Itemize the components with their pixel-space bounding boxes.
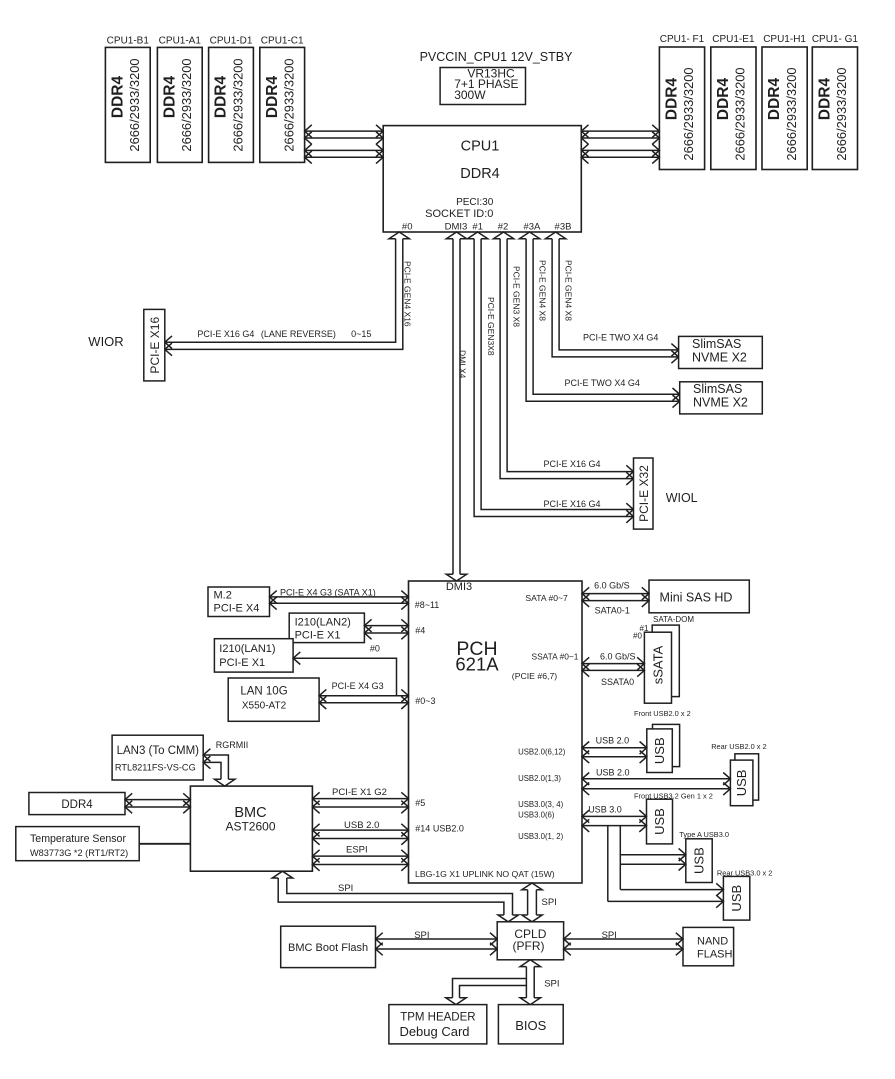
svg-text:USB: USB (692, 847, 707, 874)
svg-text:PCI-E X1: PCI-E X1 (295, 630, 341, 642)
svg-text:CPU1-E1: CPU1-E1 (712, 34, 755, 45)
svg-text:BIOS: BIOS (515, 1018, 546, 1033)
svg-text:DDR4: DDR4 (663, 78, 680, 121)
svg-text:USB: USB (734, 770, 749, 797)
svg-text:DMI3: DMI3 (446, 581, 472, 593)
svg-text:PVCCIN_CPU1 12V_STBY: PVCCIN_CPU1 12V_STBY (420, 50, 574, 64)
svg-text:USB 3.0: USB 3.0 (588, 805, 622, 815)
svg-text:PECI:30: PECI:30 (456, 197, 494, 208)
svg-text:SATA-DOM: SATA-DOM (653, 615, 694, 624)
svg-text:DDR4: DDR4 (61, 799, 93, 811)
svg-text:USB3.0(1, 2): USB3.0(1, 2) (518, 832, 563, 841)
svg-text:PCI-E GEN3X8: PCI-E GEN3X8 (486, 297, 496, 356)
svg-text:ESPI: ESPI (346, 845, 368, 856)
svg-text:DDR4: DDR4 (460, 166, 499, 182)
svg-text:USB: USB (652, 808, 667, 835)
svg-text:USB2.0(1,3): USB2.0(1,3) (518, 774, 561, 783)
svg-text:PCI-E GEN4 X16: PCI-E GEN4 X16 (403, 261, 413, 327)
svg-text:#4: #4 (415, 626, 425, 636)
svg-text:M.2: M.2 (214, 590, 232, 602)
svg-text:#2: #2 (498, 222, 509, 233)
svg-text:DDR4: DDR4 (264, 76, 281, 119)
svg-text:USB2.0(6,12): USB2.0(6,12) (518, 748, 566, 757)
svg-text:USB3.0(3, 4): USB3.0(3, 4) (518, 800, 563, 809)
svg-text:Mini SAS HD: Mini SAS HD (660, 591, 733, 605)
svg-text:Debug Card: Debug Card (399, 1024, 469, 1039)
svg-text:RTL8211FS-VS-CG: RTL8211FS-VS-CG (115, 762, 196, 772)
svg-text:SPI: SPI (338, 883, 353, 894)
svg-text:SPI: SPI (602, 930, 617, 941)
svg-text:SATA0-1: SATA0-1 (595, 606, 630, 616)
svg-text:#8~11: #8~11 (415, 600, 440, 610)
svg-text:SPI: SPI (544, 979, 559, 990)
svg-text:PCI-E X4 G3: PCI-E X4 G3 (332, 681, 384, 691)
svg-text:(PFR): (PFR) (513, 939, 545, 953)
svg-text:PCI-E TWO X4 G4: PCI-E TWO X4 G4 (583, 333, 658, 343)
svg-text:(PCIE #6,7): (PCIE #6,7) (512, 671, 557, 681)
svg-text:DDR4: DDR4 (213, 76, 230, 119)
svg-text:sSATA: sSATA (651, 645, 666, 684)
svg-text:#0: #0 (402, 222, 413, 233)
svg-text:Rear USB2.0 x 2: Rear USB2.0 x 2 (711, 742, 766, 751)
svg-text:2666/2933/3200: 2666/2933/3200 (179, 58, 194, 151)
svg-text:PCI-E X16 G4: PCI-E X16 G4 (197, 329, 254, 339)
svg-text:CPU1-A1: CPU1-A1 (159, 36, 202, 47)
svg-text:DDR4: DDR4 (816, 78, 833, 121)
svg-text:CPU1-C1: CPU1-C1 (261, 36, 304, 47)
svg-text:DDR4: DDR4 (715, 78, 732, 121)
svg-text:I210(LAN2): I210(LAN2) (295, 617, 351, 629)
svg-text:SATA #0~7: SATA #0~7 (525, 593, 568, 603)
svg-text:FLASH: FLASH (697, 949, 733, 961)
svg-text:PCI-E X16 G4: PCI-E X16 G4 (544, 499, 601, 509)
svg-text:#3A: #3A (523, 222, 541, 233)
svg-text:USB 2.0: USB 2.0 (596, 736, 630, 746)
svg-text:PCI-E TWO X4 G4: PCI-E TWO X4 G4 (565, 378, 640, 388)
svg-text:RGRMII: RGRMII (216, 740, 249, 750)
svg-text:USB: USB (729, 885, 744, 912)
svg-text:2666/2933/3200: 2666/2933/3200 (733, 67, 748, 160)
svg-text:TPM HEADER: TPM HEADER (400, 1012, 475, 1024)
svg-text:CPU1-D1: CPU1-D1 (210, 36, 253, 47)
svg-text:#0~3: #0~3 (415, 696, 435, 706)
svg-text:SOCKET ID:0: SOCKET ID:0 (425, 208, 493, 220)
svg-text:LBG-1G X1 UPLINK NO QAT (15W): LBG-1G X1 UPLINK NO QAT (15W) (415, 869, 555, 879)
svg-text:AST2600: AST2600 (225, 820, 275, 834)
svg-text:PCI-E GEN3 X8: PCI-E GEN3 X8 (512, 266, 522, 327)
svg-text:X550-AT2: X550-AT2 (242, 701, 287, 712)
svg-text:PCI-E GEN4 X8: PCI-E GEN4 X8 (564, 260, 574, 321)
svg-text:USB 2.0: USB 2.0 (344, 820, 379, 831)
svg-text:CPU1- G1: CPU1- G1 (812, 34, 859, 45)
svg-text:CPU1: CPU1 (461, 139, 500, 155)
svg-text:2666/2933/3200: 2666/2933/3200 (282, 58, 297, 151)
svg-text:LAN 10G: LAN 10G (240, 686, 287, 698)
svg-text:Front USB2.0 x 2: Front USB2.0 x 2 (634, 709, 691, 718)
svg-text:PCI-E X1: PCI-E X1 (219, 657, 265, 669)
svg-text:#3B: #3B (555, 222, 572, 233)
svg-text:PCI-E X16: PCI-E X16 (148, 317, 162, 374)
svg-text:W83773G *2 (RT1/RT2): W83773G *2 (RT1/RT2) (30, 848, 128, 858)
svg-text:WIOL: WIOL (666, 491, 698, 505)
svg-text:2666/2933/3200: 2666/2933/3200 (230, 58, 245, 151)
svg-text:LAN3 (To CMM): LAN3 (To CMM) (117, 745, 200, 757)
svg-text:SlimSAS: SlimSAS (693, 382, 742, 396)
svg-text:NVME X2: NVME X2 (692, 350, 747, 364)
svg-text:USB: USB (652, 737, 667, 764)
svg-text:DMI3: DMI3 (445, 222, 468, 233)
svg-text:SSATA #0~1: SSATA #0~1 (532, 652, 579, 662)
svg-text:2666/2933/3200: 2666/2933/3200 (127, 58, 142, 151)
svg-text:DMI X4: DMI X4 (458, 350, 468, 379)
svg-text:#1: #1 (472, 222, 483, 233)
svg-text:USB3.0(6): USB3.0(6) (518, 811, 555, 820)
svg-text:SSATA0: SSATA0 (601, 677, 634, 687)
svg-text:SPI: SPI (414, 930, 429, 941)
svg-text:USB 2.0: USB 2.0 (596, 768, 630, 778)
svg-text:6.0 Gb/S: 6.0 Gb/S (600, 652, 636, 662)
svg-text:I210(LAN1): I210(LAN1) (219, 643, 275, 655)
svg-text:PCI-E GEN4 X8: PCI-E GEN4 X8 (538, 260, 548, 321)
svg-text:DDR4: DDR4 (161, 76, 178, 119)
svg-text:0~15: 0~15 (351, 329, 371, 339)
svg-text:SlimSAS: SlimSAS (692, 337, 741, 351)
svg-text:PCI-E X4: PCI-E X4 (214, 603, 260, 615)
svg-text:BMC Boot Flash: BMC Boot Flash (288, 942, 368, 954)
svg-text:300W: 300W (454, 88, 486, 102)
svg-text:PCI-E X16 G4: PCI-E X16 G4 (544, 459, 601, 469)
svg-text:(LANE REVERSE): (LANE REVERSE) (261, 329, 336, 339)
svg-text:DDR4: DDR4 (766, 78, 783, 121)
svg-text:PCI-E X1 G2: PCI-E X1 G2 (332, 787, 387, 798)
svg-text:CPU1- F1: CPU1- F1 (660, 34, 705, 45)
svg-text:621A: 621A (455, 654, 499, 675)
svg-text:CPU1-H1: CPU1-H1 (763, 34, 806, 45)
svg-text:2666/2933/3200: 2666/2933/3200 (834, 67, 849, 160)
svg-text:DDR4: DDR4 (109, 76, 126, 119)
svg-text:#0: #0 (370, 644, 380, 654)
svg-text:#0: #0 (633, 632, 642, 641)
svg-text:#14 USB2.0: #14 USB2.0 (415, 824, 464, 834)
svg-text:#5: #5 (415, 798, 425, 808)
svg-text:PCI-E X32: PCI-E X32 (637, 465, 651, 522)
svg-text:Temperature Sensor: Temperature Sensor (30, 833, 126, 845)
svg-text:2666/2933/3200: 2666/2933/3200 (681, 67, 696, 160)
svg-text:Type A USB3.0: Type A USB3.0 (679, 830, 729, 839)
svg-text:2666/2933/3200: 2666/2933/3200 (784, 67, 799, 160)
svg-text:WIOR: WIOR (88, 334, 123, 349)
svg-text:CPU1-B1: CPU1-B1 (107, 36, 150, 47)
svg-text:NAND: NAND (697, 936, 728, 948)
svg-text:NVME X2: NVME X2 (693, 396, 748, 410)
svg-text:PCI-E X4 G3 (SATA X1): PCI-E X4 G3 (SATA X1) (280, 588, 376, 598)
svg-text:SPI: SPI (542, 897, 557, 908)
svg-text:6.0 Gb/S: 6.0 Gb/S (594, 581, 630, 591)
